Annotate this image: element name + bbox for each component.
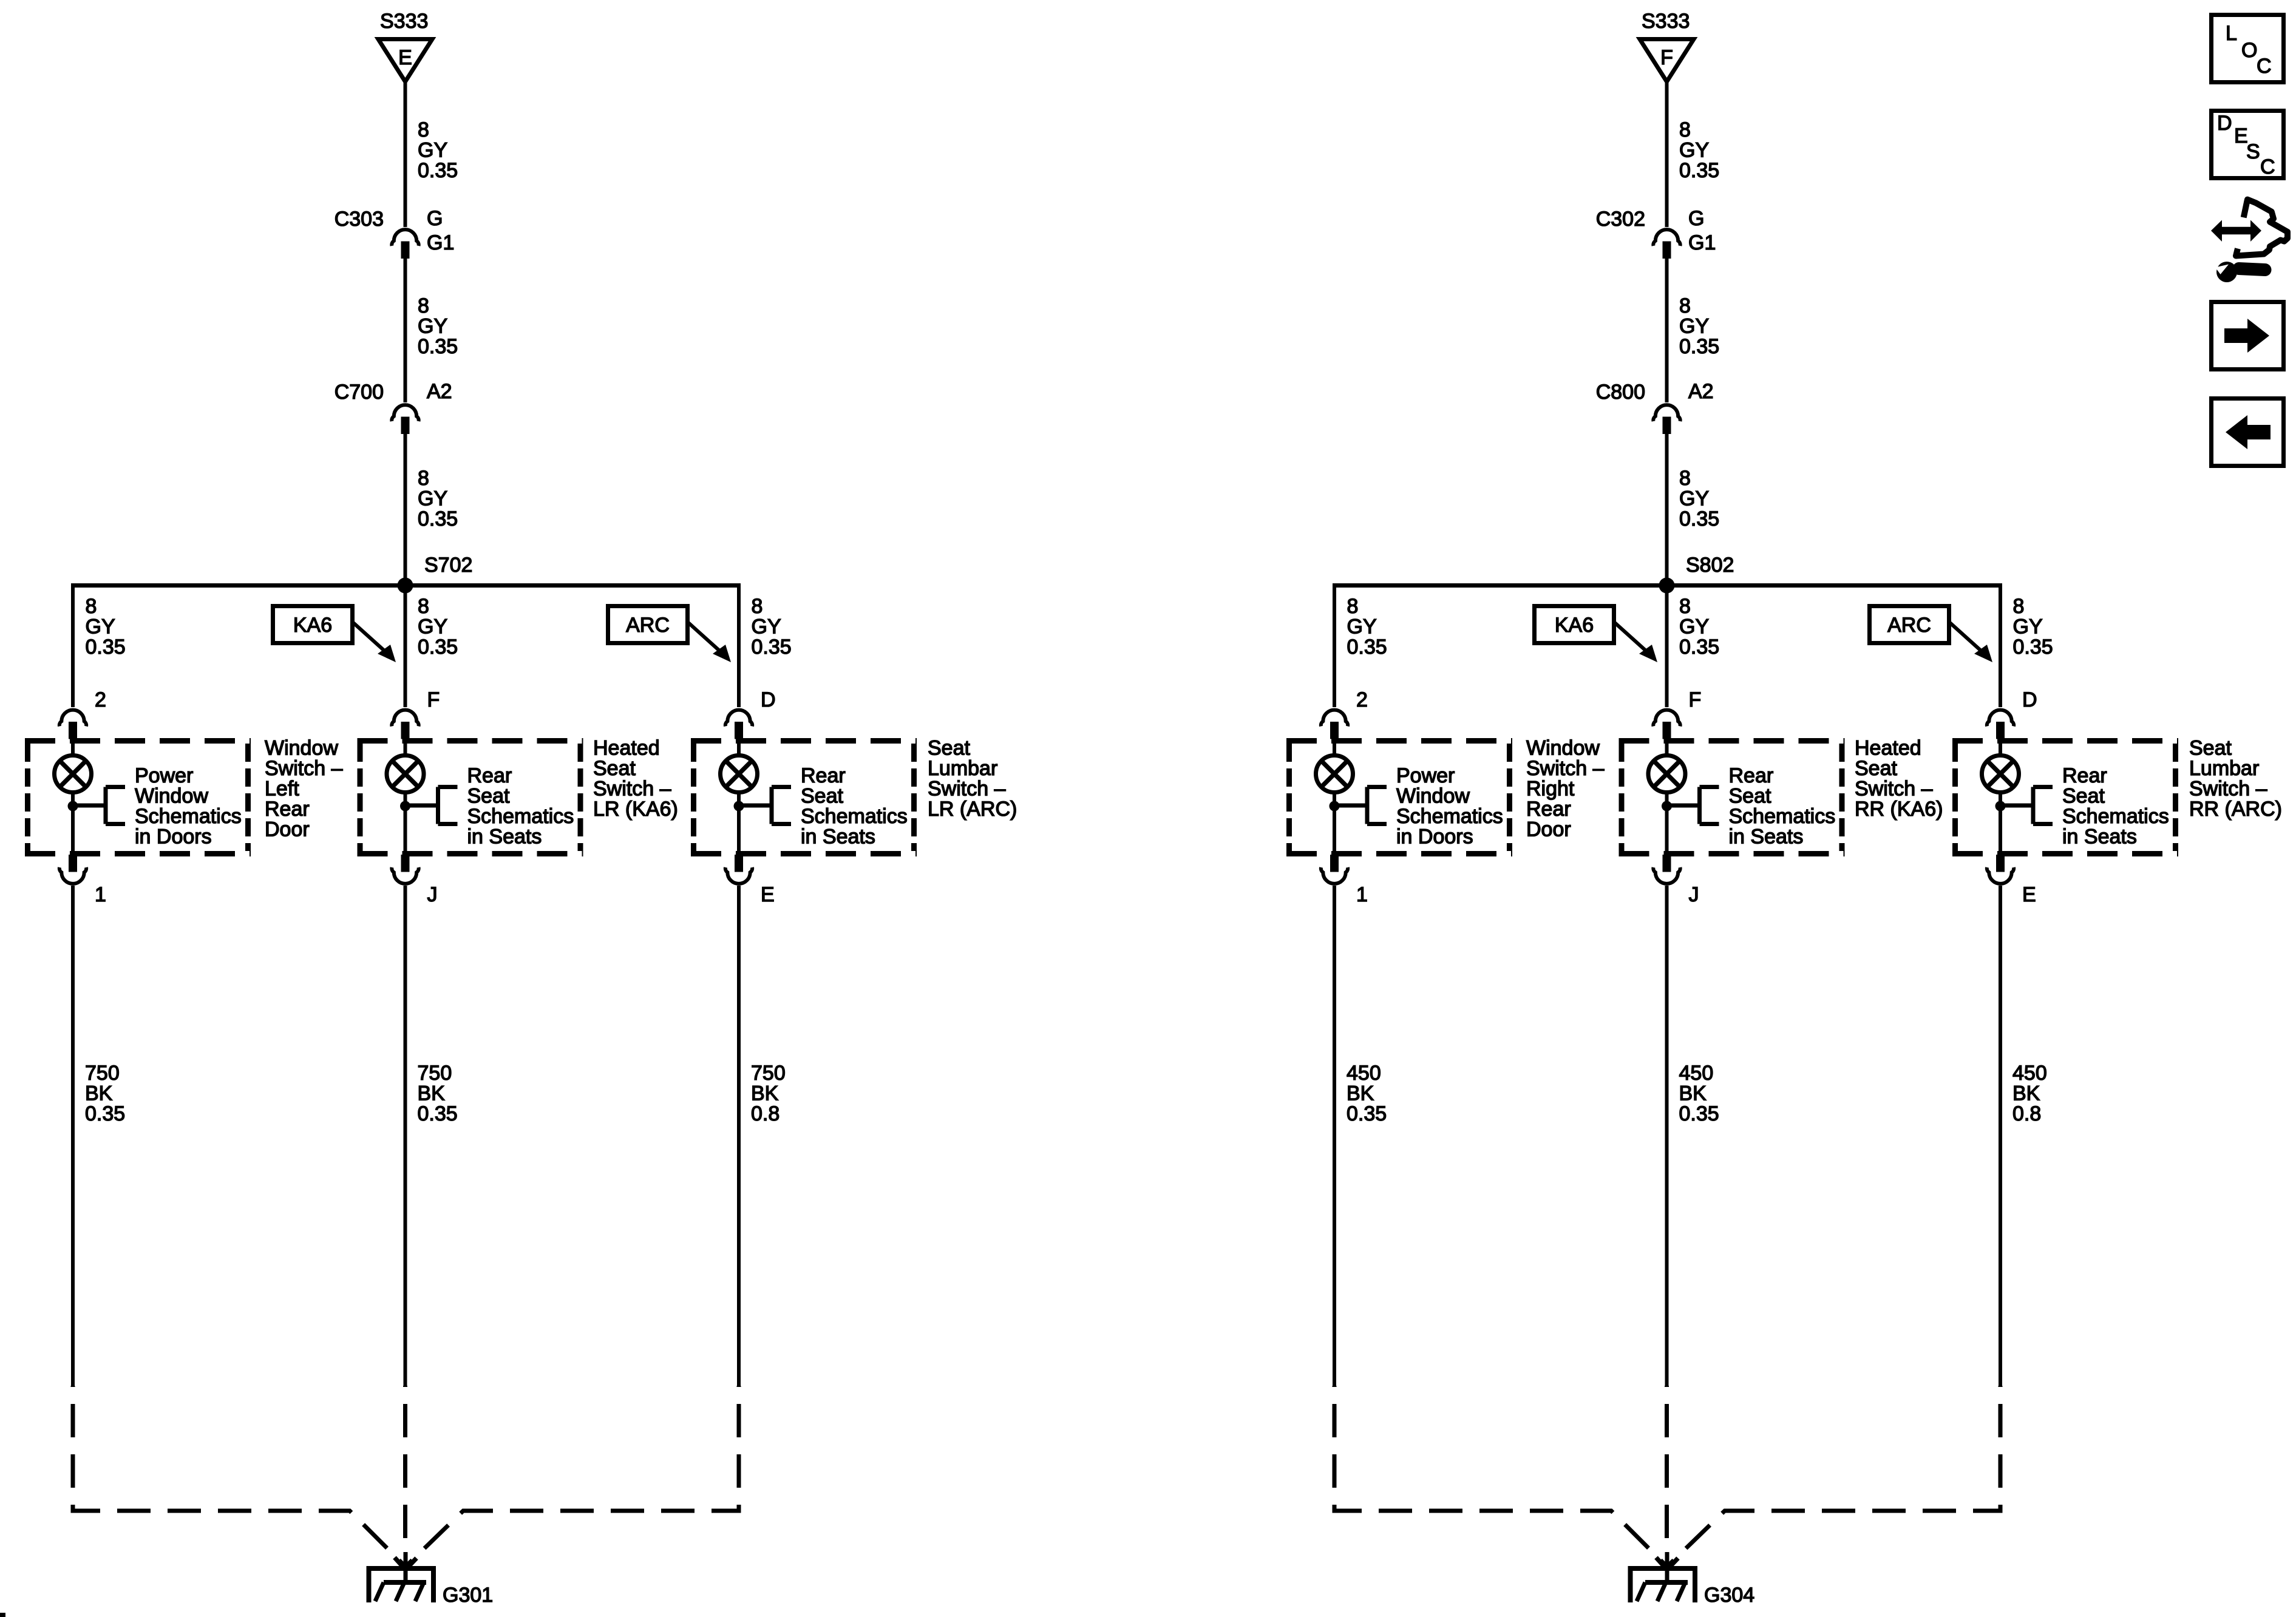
wire label 750 BK xyxy=(751,1062,786,1125)
svg-text:LR (KA6): LR (KA6) xyxy=(593,798,678,821)
svg-text:Heated: Heated xyxy=(593,737,660,760)
svg-text:D: D xyxy=(761,688,776,711)
connector pin F xyxy=(1653,710,1680,739)
svg-text:Rear: Rear xyxy=(265,798,310,821)
circuit label box ARC xyxy=(608,606,688,643)
svg-text:0.35: 0.35 xyxy=(418,507,458,531)
svg-text:BK: BK xyxy=(751,1082,779,1105)
dashed box Window Switch – xyxy=(25,741,251,854)
svg-text:G1: G1 xyxy=(1688,231,1716,254)
wire bus to pin F connector xyxy=(404,583,407,707)
wire label 8 GY 0.35 xyxy=(1679,467,1719,531)
wire bus to pin F connector xyxy=(1665,583,1669,707)
svg-text:Seat: Seat xyxy=(467,785,510,808)
svg-text:S: S xyxy=(2246,140,2260,163)
wire label 8 GY 0.35 xyxy=(1679,595,1719,659)
svg-text:Rear: Rear xyxy=(801,764,846,787)
dashed wire to ground xyxy=(406,1386,739,1567)
svg-text:E: E xyxy=(398,46,412,69)
svg-text:Window: Window xyxy=(135,785,208,808)
svg-text:D: D xyxy=(2217,112,2232,135)
svg-text:8: 8 xyxy=(418,294,429,317)
svg-text:BK: BK xyxy=(85,1082,113,1105)
svg-text:8: 8 xyxy=(86,595,97,618)
svg-text:S333: S333 xyxy=(1642,10,1690,33)
wire C303 to C700 xyxy=(404,259,407,402)
svg-text:8: 8 xyxy=(1679,294,1691,317)
splice junction dot S802 xyxy=(1659,578,1675,594)
bus wire xyxy=(1334,583,2002,588)
svg-text:Schematics: Schematics xyxy=(801,805,908,828)
box text Rear Seat Schematics in Seats xyxy=(801,764,908,849)
left half: left rear circuit xyxy=(25,10,1017,1607)
box text Power Window Schematics in Doors xyxy=(1396,764,1503,849)
lamp symbol (circle-X) xyxy=(1982,756,2019,793)
svg-text:in Doors: in Doors xyxy=(1396,825,1473,849)
ground symbol G301 xyxy=(369,1552,434,1602)
dashed wire to ground xyxy=(403,1386,407,1552)
KA6 arrow xyxy=(1615,623,1657,662)
half-connector bracket to other schematic xyxy=(1334,787,1387,824)
svg-text:S702: S702 xyxy=(424,554,472,577)
ground symbol G304 xyxy=(1631,1552,1696,1602)
box text Rear Seat Schematics in Seats xyxy=(2062,764,2169,849)
svg-text:0.35: 0.35 xyxy=(85,1102,125,1125)
junction dot xyxy=(68,801,78,812)
svg-text:BK: BK xyxy=(1679,1082,1707,1105)
icon box arrow right xyxy=(2212,302,2284,370)
lamp symbol (circle-X) xyxy=(387,756,424,793)
svg-text:Door: Door xyxy=(265,818,310,841)
circuit label box KA6 xyxy=(1535,606,1614,643)
svg-text:Switch –: Switch – xyxy=(2189,778,2267,801)
svg-text:8: 8 xyxy=(418,595,429,618)
box text Rear Seat Schematics in Seats xyxy=(467,764,574,849)
svg-text:8: 8 xyxy=(1679,595,1691,618)
wire label 450 BK xyxy=(1679,1062,1719,1125)
svg-text:Right: Right xyxy=(1526,778,1575,801)
dashed wire to ground xyxy=(1667,1386,2000,1567)
svg-text:GY: GY xyxy=(418,487,447,510)
svg-text:Window: Window xyxy=(1526,737,1600,760)
svg-text:C800: C800 xyxy=(1596,381,1645,404)
svg-text:ARC: ARC xyxy=(1887,614,1931,637)
wire label 8 GY 0.35 xyxy=(86,595,126,659)
svg-text:Window: Window xyxy=(265,737,338,760)
svg-text:0.35: 0.35 xyxy=(1679,636,1719,659)
svg-text:8: 8 xyxy=(1679,467,1691,490)
wire label 750 BK xyxy=(85,1062,125,1125)
circuit label box ARC xyxy=(1870,606,1949,643)
svg-text:F: F xyxy=(1689,688,1702,711)
svg-text:G301: G301 xyxy=(443,1584,493,1607)
wire bus to pin 2 connector xyxy=(71,583,75,707)
svg-text:ARC: ARC xyxy=(626,614,670,637)
connector pin F xyxy=(392,710,418,739)
svg-text:in Seats: in Seats xyxy=(2062,825,2137,849)
svg-text:BK: BK xyxy=(418,1082,446,1105)
svg-text:1: 1 xyxy=(95,883,106,906)
svg-text:D: D xyxy=(2022,688,2037,711)
wire label 450 BK xyxy=(1347,1062,1387,1125)
KA6 arrow xyxy=(353,623,396,662)
svg-text:0.35: 0.35 xyxy=(2013,636,2053,659)
svg-text:Seat: Seat xyxy=(2062,785,2105,808)
wire into box xyxy=(1333,738,1336,756)
connector pin J xyxy=(1653,855,1680,884)
wire label 8 GY 0.35 xyxy=(1347,595,1387,659)
svg-text:KA6: KA6 xyxy=(293,614,332,637)
svg-text:Switch –: Switch – xyxy=(1526,757,1605,780)
wire into box xyxy=(404,738,407,756)
svg-text:in Seats: in Seats xyxy=(1729,825,1804,849)
svg-text:GY: GY xyxy=(1679,139,1709,162)
wire label 8 GY 0.35 xyxy=(2013,595,2053,659)
connector pin 2 xyxy=(1321,710,1348,739)
wire label 8 GY 0.35 xyxy=(1679,118,1719,182)
svg-text:0.35: 0.35 xyxy=(1679,507,1719,531)
svg-text:BK: BK xyxy=(1347,1082,1374,1105)
svg-text:C700: C700 xyxy=(335,381,384,404)
svg-text:G304: G304 xyxy=(1704,1584,1754,1607)
svg-text:A2: A2 xyxy=(427,380,452,403)
svg-text:8: 8 xyxy=(2013,595,2025,618)
right half: right rear circuit xyxy=(1286,10,2282,1607)
lamp symbol (circle-X) xyxy=(1316,756,1353,793)
connector pin E xyxy=(1987,855,2014,884)
svg-text:Rear: Rear xyxy=(1526,798,1571,821)
svg-text:Seat: Seat xyxy=(593,757,636,780)
connector pin E xyxy=(725,855,752,884)
svg-text:0.35: 0.35 xyxy=(418,1102,458,1125)
wire label 8 GY 0.35 xyxy=(418,467,458,531)
svg-text:Lumbar: Lumbar xyxy=(2189,757,2259,780)
svg-text:Rear: Rear xyxy=(467,764,512,787)
icon box DESC xyxy=(2212,111,2284,179)
svg-text:Seat: Seat xyxy=(801,785,843,808)
ARC arrow xyxy=(1950,623,1992,662)
svg-text:G: G xyxy=(427,207,443,230)
dashed wire to ground xyxy=(73,1386,406,1567)
svg-text:0.35: 0.35 xyxy=(1347,636,1387,659)
component label Window Switch – Right Rear Door xyxy=(1526,737,1605,841)
svg-text:0.35: 0.35 xyxy=(1679,159,1719,182)
wire into box xyxy=(737,738,741,756)
svg-text:0.8: 0.8 xyxy=(2012,1102,2041,1125)
svg-text:F: F xyxy=(427,688,440,711)
svg-text:0.35: 0.35 xyxy=(86,636,126,659)
svg-text:8: 8 xyxy=(418,467,429,490)
svg-text:Power: Power xyxy=(135,764,193,787)
wire label 450 BK xyxy=(2012,1062,2047,1125)
component label Heated Seat Switch – RR (KA6) xyxy=(1855,737,1943,821)
svg-text:8: 8 xyxy=(418,118,429,141)
wire into box xyxy=(1999,738,2002,756)
svg-text:BK: BK xyxy=(2012,1082,2040,1105)
wire C700 to splice S702 xyxy=(404,434,407,586)
connector pin 2 xyxy=(59,710,86,739)
connector C303 xyxy=(392,229,418,259)
svg-text:Rear: Rear xyxy=(2062,764,2107,787)
junction dot xyxy=(1995,801,2006,812)
svg-text:GY: GY xyxy=(418,615,447,639)
wire lamp to box bottom xyxy=(1665,793,1669,855)
wire pin J down xyxy=(1665,886,1669,1386)
svg-text:Seat: Seat xyxy=(1855,757,1897,780)
svg-text:Seat: Seat xyxy=(1729,785,1771,808)
half-connector bracket to other schematic xyxy=(406,787,458,824)
lamp symbol (circle-X) xyxy=(1648,756,1685,793)
svg-text:0.35: 0.35 xyxy=(1679,1102,1719,1125)
svg-text:C: C xyxy=(2257,55,2272,78)
svg-text:GY: GY xyxy=(418,315,447,338)
connector pin D xyxy=(1987,710,2014,739)
svg-text:450: 450 xyxy=(1679,1062,1714,1085)
svg-text:0.35: 0.35 xyxy=(418,335,458,358)
svg-text:Power: Power xyxy=(1396,764,1455,787)
svg-text:Lumbar: Lumbar xyxy=(928,757,997,780)
svg-text:GY: GY xyxy=(1679,315,1709,338)
wire bus to pin D connector xyxy=(1999,583,2002,707)
svg-text:0.35: 0.35 xyxy=(1679,335,1719,358)
svg-text:450: 450 xyxy=(1347,1062,1381,1085)
dashed wire to ground xyxy=(1334,1386,1667,1567)
wire bus to pin D connector xyxy=(737,583,741,707)
svg-text:E: E xyxy=(2022,883,2036,906)
wire lamp to box bottom xyxy=(404,793,407,855)
wire pin E down xyxy=(737,886,741,1386)
component label Seat Lumbar Switch – RR (ARC) xyxy=(2189,737,2282,821)
svg-text:Schematics: Schematics xyxy=(467,805,574,828)
svg-text:in Seats: in Seats xyxy=(801,825,875,849)
svg-text:S802: S802 xyxy=(1686,554,1734,577)
wire label 8 GY 0.35 xyxy=(752,595,792,659)
page corner artifact xyxy=(0,1613,5,1617)
icon box arrow left xyxy=(2212,399,2284,466)
svg-text:Window: Window xyxy=(1396,785,1470,808)
svg-text:Left: Left xyxy=(265,778,299,801)
wire lamp to box bottom xyxy=(71,793,75,855)
svg-text:Schematics: Schematics xyxy=(1729,805,1836,828)
svg-text:J: J xyxy=(427,883,438,906)
svg-text:L: L xyxy=(2226,22,2237,45)
svg-text:O: O xyxy=(2241,39,2257,62)
svg-text:8: 8 xyxy=(752,595,763,618)
junction dot xyxy=(734,801,744,812)
wire lamp to box bottom xyxy=(1999,793,2002,855)
svg-text:Switch –: Switch – xyxy=(1855,778,1933,801)
svg-text:F: F xyxy=(1660,46,1673,69)
connector C700 xyxy=(392,405,418,434)
splice symbol S333 triangle E xyxy=(378,39,432,82)
wire S333 to C302 xyxy=(1665,83,1669,227)
svg-text:A2: A2 xyxy=(1688,380,1714,403)
dashed box Seat Lumbar xyxy=(691,741,917,854)
half-connector bracket to other schematic xyxy=(2000,787,2053,824)
svg-text:8: 8 xyxy=(1347,595,1359,618)
wire pin J down xyxy=(404,886,407,1386)
svg-text:Schematics: Schematics xyxy=(2062,805,2169,828)
wire into box xyxy=(1665,738,1669,756)
half-connector bracket to other schematic xyxy=(739,787,791,824)
junction dot xyxy=(1330,801,1340,812)
svg-text:Switch –: Switch – xyxy=(265,757,343,780)
svg-text:in Seats: in Seats xyxy=(467,825,542,849)
lamp symbol (circle-X) xyxy=(55,756,92,793)
connector C800 xyxy=(1653,405,1680,434)
wire label 8 GY 0.35 xyxy=(418,294,458,358)
svg-text:Seat: Seat xyxy=(928,737,970,760)
svg-text:LR (ARC): LR (ARC) xyxy=(928,798,1017,821)
connector pin 1 xyxy=(59,855,86,884)
splice junction dot S702 xyxy=(398,578,413,594)
connector C302 xyxy=(1653,229,1680,259)
ARC arrow xyxy=(688,623,731,662)
svg-text:Schematics: Schematics xyxy=(135,805,242,828)
svg-text:GY: GY xyxy=(752,615,781,639)
svg-text:GY: GY xyxy=(2013,615,2043,639)
svg-text:1: 1 xyxy=(1356,883,1368,906)
svg-text:C302: C302 xyxy=(1596,208,1645,231)
svg-text:RR (ARC): RR (ARC) xyxy=(2189,798,2282,821)
svg-text:0.35: 0.35 xyxy=(1347,1102,1387,1125)
svg-text:2: 2 xyxy=(1356,688,1368,711)
icon box LOC xyxy=(2212,15,2284,83)
wire C800 to splice S802 xyxy=(1665,434,1669,586)
wire label 8 GY 0.35 xyxy=(418,118,458,182)
svg-text:G1: G1 xyxy=(427,231,454,254)
svg-text:450: 450 xyxy=(2012,1062,2047,1085)
svg-text:8: 8 xyxy=(1679,118,1691,141)
half-connector bracket to other schematic xyxy=(1667,787,1719,824)
dashed box Window Switch – xyxy=(1286,741,1512,854)
svg-text:GY: GY xyxy=(1679,615,1709,639)
svg-text:GY: GY xyxy=(418,139,447,162)
component label Window Switch – Left Rear Door xyxy=(265,737,343,841)
svg-text:G: G xyxy=(1688,207,1704,230)
wire C302 to C800 xyxy=(1665,259,1669,402)
box text Rear Seat Schematics in Seats xyxy=(1729,764,1836,849)
svg-text:E: E xyxy=(761,883,775,906)
half-connector bracket to other schematic xyxy=(73,787,125,824)
wire pin 1 down xyxy=(71,886,75,1386)
svg-text:Switch –: Switch – xyxy=(928,778,1006,801)
bus wire xyxy=(72,583,740,588)
wire label 8 GY 0.35 xyxy=(418,595,458,659)
wire S333 to C303 xyxy=(404,83,407,227)
svg-text:RR (KA6): RR (KA6) xyxy=(1855,798,1943,821)
svg-text:2: 2 xyxy=(95,688,106,711)
svg-text:C303: C303 xyxy=(335,208,384,231)
svg-text:KA6: KA6 xyxy=(1555,614,1594,637)
svg-text:in Doors: in Doors xyxy=(135,825,212,849)
svg-text:0.8: 0.8 xyxy=(751,1102,779,1125)
icon jump-to-component (double arrow, outline, wrench) xyxy=(2211,200,2288,282)
wire label 8 GY 0.35 xyxy=(1679,294,1719,358)
component label Heated Seat Switch – LR (KA6) xyxy=(593,737,678,821)
svg-text:750: 750 xyxy=(418,1062,452,1085)
wire into box xyxy=(71,738,75,756)
svg-text:C: C xyxy=(2260,155,2275,178)
connector pin J xyxy=(392,855,418,884)
svg-text:Seat: Seat xyxy=(2189,737,2232,760)
wire label 750 BK xyxy=(418,1062,458,1125)
lamp symbol (circle-X) xyxy=(721,756,758,793)
svg-text:Heated: Heated xyxy=(1855,737,1921,760)
wire lamp to box bottom xyxy=(737,793,741,855)
svg-text:750: 750 xyxy=(85,1062,120,1085)
svg-text:Schematics: Schematics xyxy=(1396,805,1503,828)
svg-text:Rear: Rear xyxy=(1729,764,1774,787)
svg-text:Switch –: Switch – xyxy=(593,778,671,801)
dashed box Heated Seat xyxy=(358,741,583,854)
wire pin 1 down xyxy=(1333,886,1336,1386)
svg-text:0.35: 0.35 xyxy=(418,159,458,182)
junction dot xyxy=(400,801,410,812)
component label Seat Lumbar Switch – LR (ARC) xyxy=(928,737,1017,821)
box text Power Window Schematics in Doors xyxy=(135,764,242,849)
dashed box Seat Lumbar xyxy=(1952,741,2178,854)
dashed box Heated Seat xyxy=(1619,741,1845,854)
connector pin 1 xyxy=(1321,855,1348,884)
splice symbol S333 triangle F xyxy=(1640,39,1694,82)
svg-text:0.35: 0.35 xyxy=(418,636,458,659)
junction dot xyxy=(1662,801,1672,812)
dashed wire to ground xyxy=(1665,1386,1669,1552)
svg-text:GY: GY xyxy=(1679,487,1709,510)
circuit label box KA6 xyxy=(273,606,353,643)
svg-text:J: J xyxy=(1689,883,1699,906)
connector pin D xyxy=(725,710,752,739)
svg-text:Door: Door xyxy=(1526,818,1571,841)
svg-text:GY: GY xyxy=(86,615,115,639)
svg-text:0.35: 0.35 xyxy=(752,636,792,659)
wire pin E down xyxy=(1999,886,2002,1386)
wire bus to pin 2 connector xyxy=(1333,583,1336,707)
wire lamp to box bottom xyxy=(1333,793,1336,855)
svg-text:GY: GY xyxy=(1347,615,1377,639)
svg-text:750: 750 xyxy=(751,1062,786,1085)
svg-text:S333: S333 xyxy=(380,10,428,33)
